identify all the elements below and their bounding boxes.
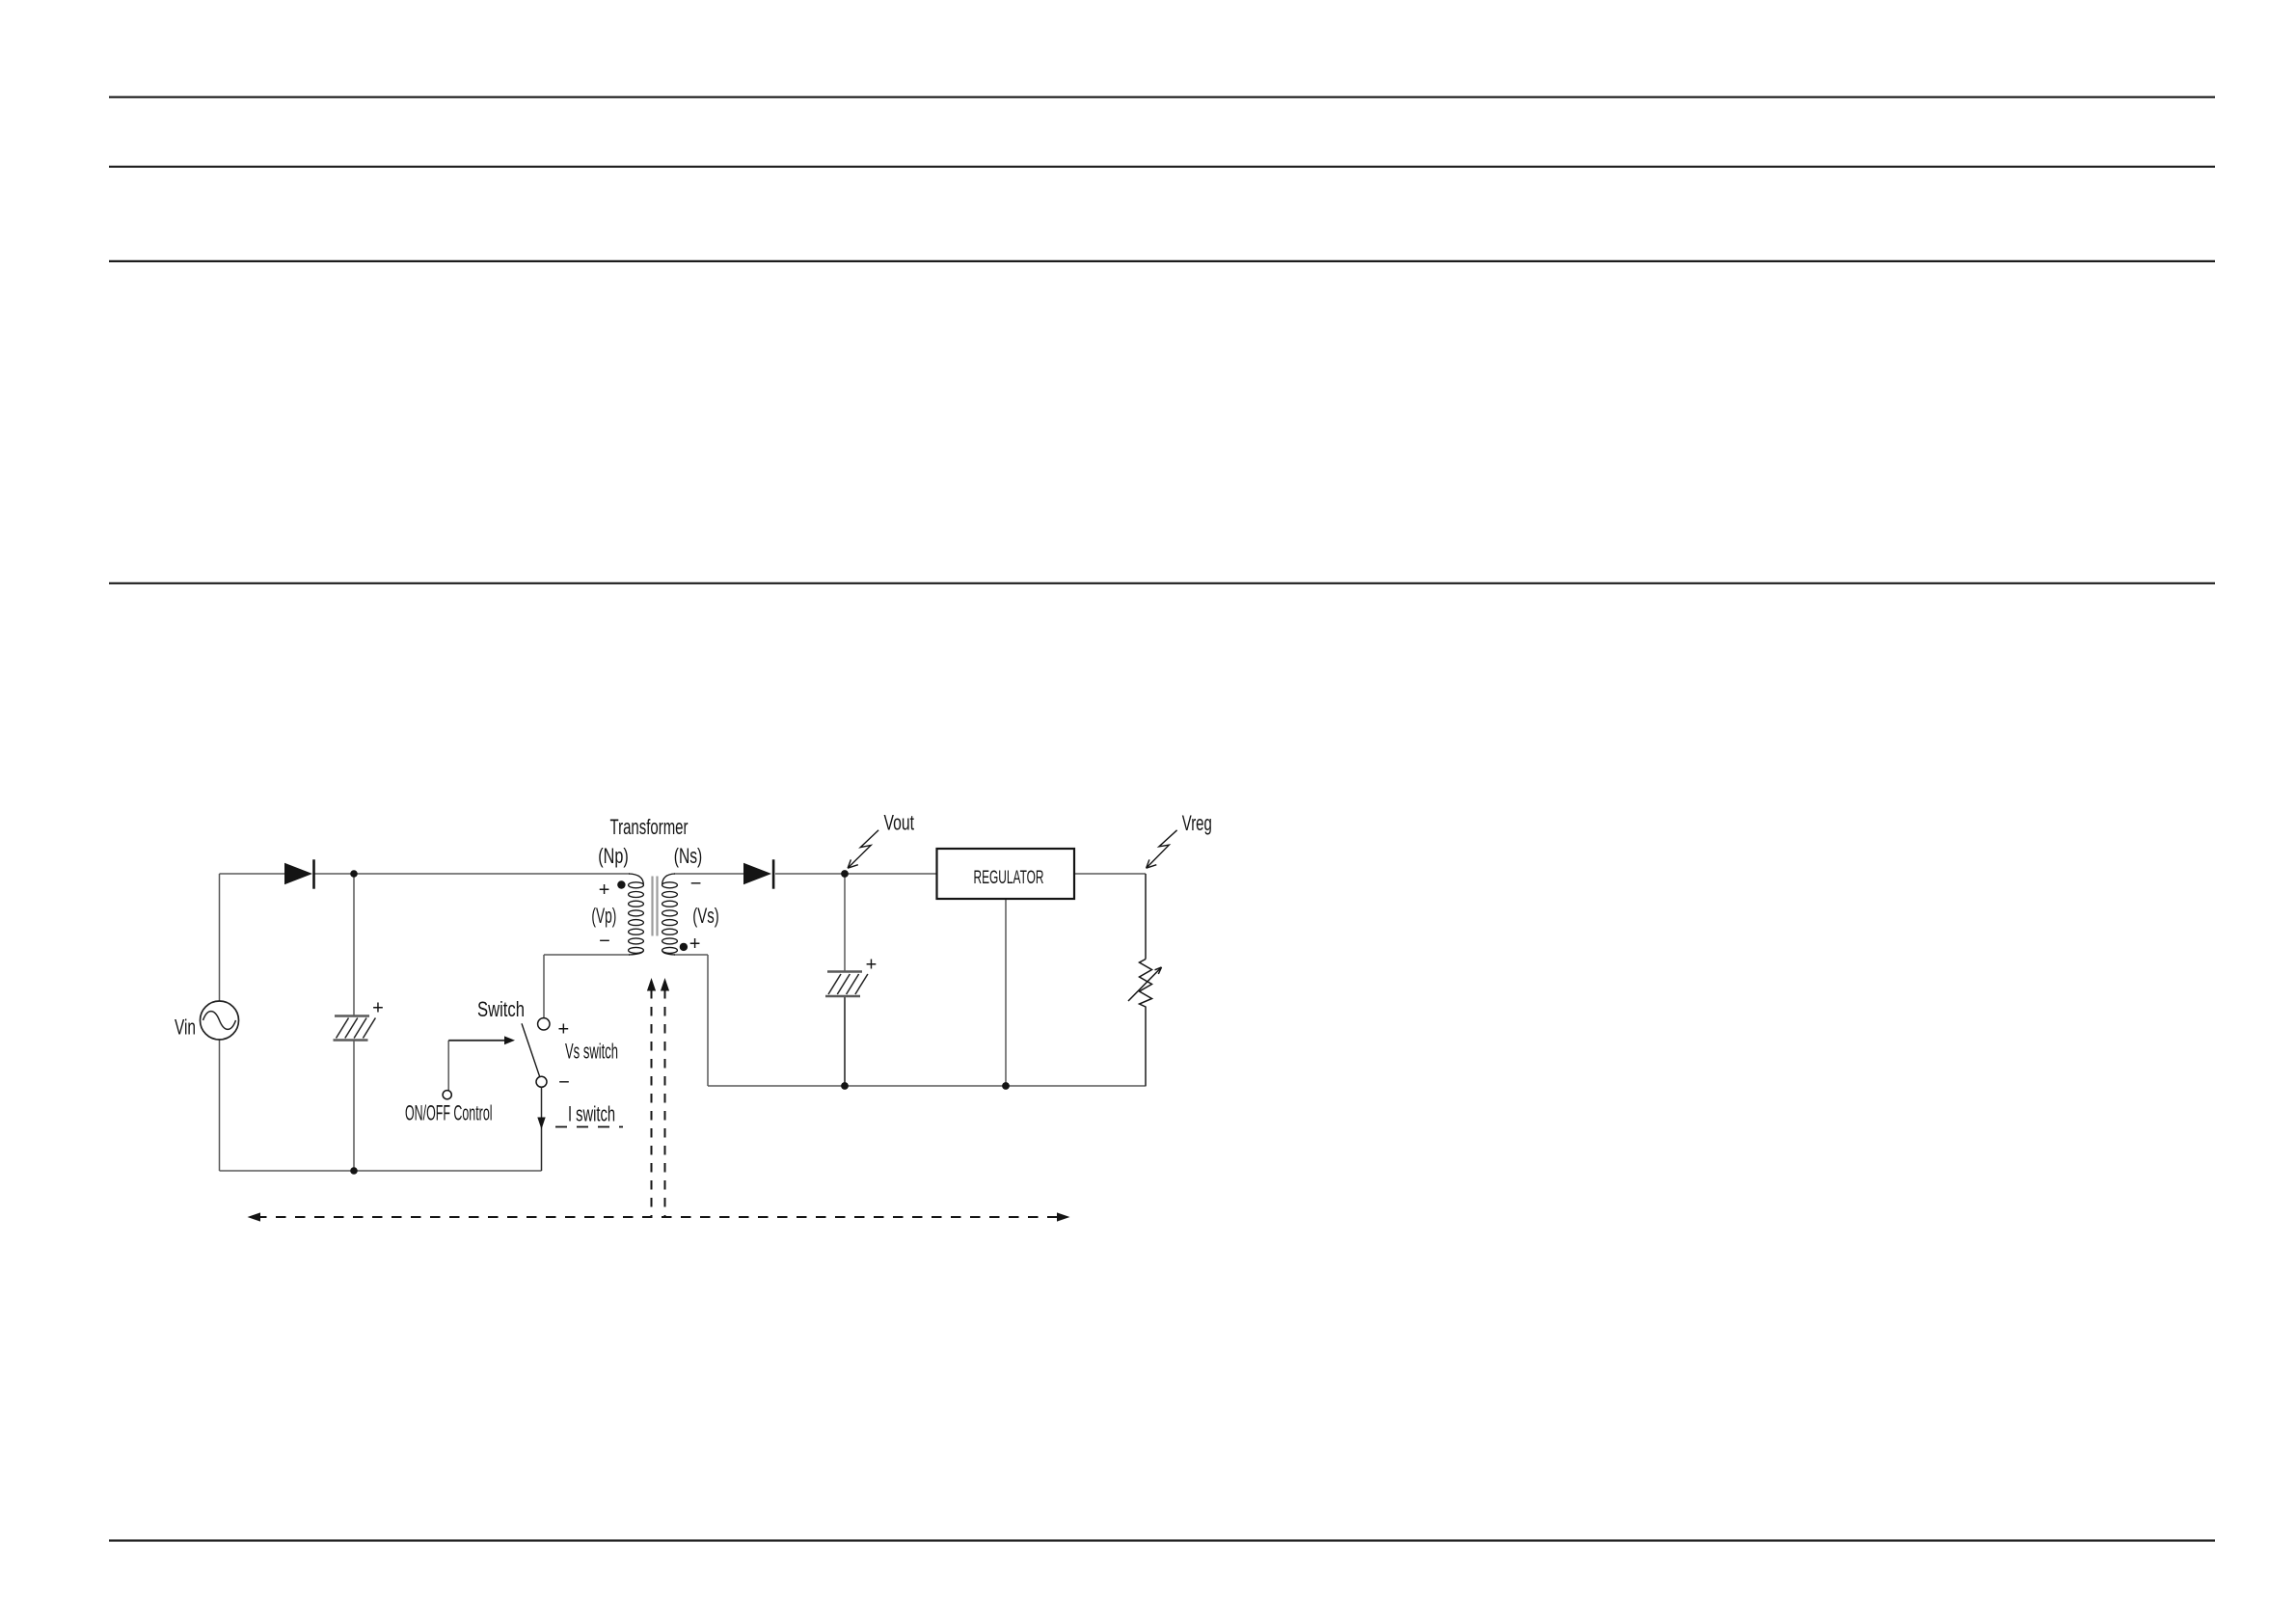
svg-text:I switch: I switch [568,1102,615,1126]
svg-text:Switch: Switch [477,997,525,1021]
svg-text:+: + [372,998,384,1019]
svg-text:Vreg: Vreg [1182,811,1212,835]
svg-text:−: − [558,1072,570,1094]
svg-text:(Np): (Np) [598,844,629,868]
svg-text:(Ns): (Ns) [674,844,703,868]
svg-text:(Vp): (Vp) [591,904,616,928]
svg-text:−: − [690,874,702,895]
svg-text:+: + [689,934,701,955]
svg-text:ON/OFF Control: ON/OFF Control [405,1101,493,1125]
svg-text:(Vs): (Vs) [692,904,719,928]
svg-text:REGULATOR: REGULATOR [974,867,1044,888]
svg-text:+: + [599,880,610,901]
svg-text:−: − [599,931,610,952]
svg-text:Vout: Vout [884,810,915,834]
svg-text:+: + [558,1019,570,1041]
svg-text:Transformer: Transformer [610,815,689,839]
svg-text:Vs switch: Vs switch [565,1040,618,1064]
svg-text:Vin: Vin [175,1015,196,1040]
svg-text:+: + [866,955,878,976]
